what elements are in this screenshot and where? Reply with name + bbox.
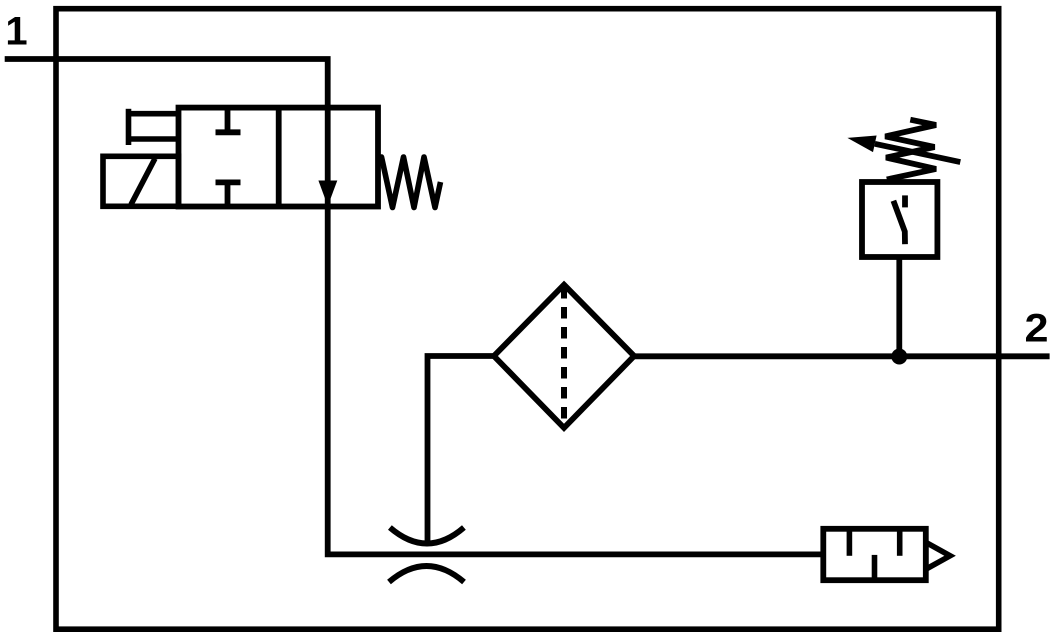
blocked port symbol (lower, left box): [216, 182, 241, 206]
svg-text:2: 2: [1025, 306, 1049, 350]
manual override button: [129, 109, 179, 145]
silencer exhaust triangle: [926, 542, 950, 569]
silencer baffle tick 3: [897, 531, 903, 556]
junction node: [891, 349, 907, 365]
silencer baffle tick 2: [872, 555, 878, 578]
switch fixed contact tick: [902, 195, 908, 207]
solenoid coil Y1: [103, 156, 179, 206]
silencer baffle tick 1: [847, 531, 853, 556]
return spring of valve: [379, 157, 441, 208]
filter F1 (diamond): [494, 285, 634, 428]
pressure setting spring: [885, 120, 936, 180]
wire: filter to port 2: [634, 353, 1050, 359]
venturi nozzle upper arc: [390, 528, 464, 544]
venturi nozzle lower arc: [389, 566, 464, 582]
filter element (dashed line): [561, 287, 567, 426]
pressure switch S1 box: [862, 182, 937, 257]
svg-text:1: 1: [5, 9, 27, 53]
adjustability arrow head: [847, 136, 876, 153]
flow path arrow (right box): [318, 181, 337, 207]
valve V1 body (3/2-way valve): [179, 108, 379, 207]
wire: pressure switch to junction: [896, 257, 902, 357]
switch lever: [893, 201, 905, 245]
blocked port symbol (upper, left box): [216, 108, 241, 133]
adjustability arrow shaft: [875, 144, 961, 162]
wire: venturi suction up and over to filter: [428, 356, 495, 543]
silencer U1 body: [823, 529, 926, 580]
wire: port 1 supply line down through valve to bottom run: [5, 59, 824, 554]
